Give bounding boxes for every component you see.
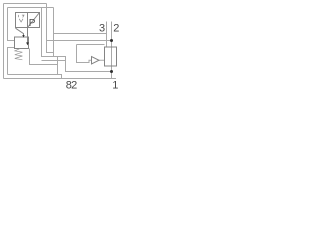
pilot box divider (27, 13, 29, 28)
main valve internal line (111, 47, 113, 66)
amplifier triangle (92, 57, 100, 65)
regulator pilot diagonal (16, 28, 24, 36)
svg-text:1: 1 (112, 80, 118, 91)
enclosure outer top (4, 3, 47, 5)
wire amplifier input (77, 45, 92, 63)
port 2 line (111, 22, 113, 48)
wire mid link (42, 60, 66, 62)
wire pilot to node 2 (47, 40, 112, 42)
main valve body (105, 47, 117, 66)
wire exhaust to port 3 (54, 33, 107, 35)
regulator internal arrow shaft (27, 28, 29, 43)
enclosure outer right staircase (47, 4, 54, 53)
piezo glyph right (22, 15, 24, 17)
wire drop to bottom (57, 57, 59, 75)
enclosure mid staircase (42, 8, 112, 72)
port 3 line (106, 22, 108, 48)
junction node 1 lower (110, 70, 113, 73)
enclosure outer bottom (4, 78, 117, 80)
enclosure inner left upper (8, 8, 15, 41)
spring (15, 49, 23, 60)
enclosure inner top (8, 7, 54, 9)
wire amplifier feed (77, 44, 105, 46)
svg-text:3: 3 (99, 23, 105, 35)
svg-text:2: 2 (113, 23, 119, 35)
enclosure inner left lower (8, 48, 15, 75)
regulator box (15, 37, 29, 49)
wire regulator branch (30, 49, 58, 65)
pilot line arrowhead (22, 35, 24, 38)
pressure sensor diagonal (28, 13, 40, 28)
junction node 2 upper (110, 39, 113, 42)
pilot valve box (16, 13, 40, 28)
piezo glyph left (18, 15, 20, 17)
nozzle V glyph (19, 19, 23, 22)
svg-text:82: 82 (66, 80, 77, 91)
regulator arrowhead (26, 42, 29, 45)
port 1 line (111, 66, 113, 79)
enclosure pilot exhaust branch (53, 8, 55, 57)
enclosure outer left (3, 4, 5, 79)
wire amplifier output (99, 59, 105, 61)
enclosure inner bottom (8, 75, 62, 79)
